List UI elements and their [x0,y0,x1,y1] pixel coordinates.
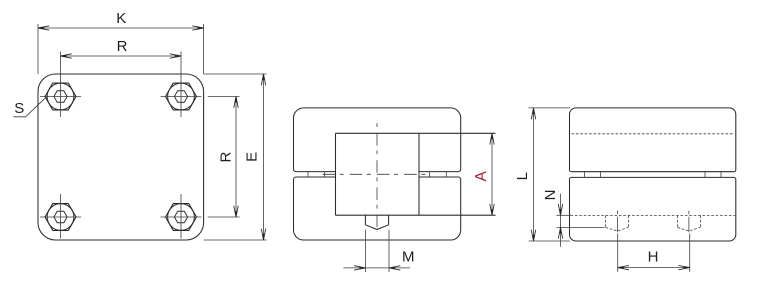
dim R top [61,38,182,58]
svg-text:M: M [402,248,415,265]
svg-text:E: E [244,152,261,162]
horizontal centerline [323,173,428,175]
vertical centerline [376,123,378,232]
side gap tick 3 [704,172,706,178]
center block [336,133,496,215]
svg-text:L: L [514,172,531,180]
label S with leader [13,97,46,117]
svg-text:N: N [542,190,559,201]
plate body [38,74,204,240]
hole bottom-right [161,194,202,239]
dim K [38,10,204,74]
dim A [473,133,494,215]
svg-text:K: K [116,10,126,27]
mid top block [294,108,461,172]
hole top-right [161,52,202,118]
dim L [514,108,570,241]
screw tip front [365,215,388,229]
gap tick left1 [307,172,309,177]
dim H [618,234,690,272]
side bottom block [570,177,736,241]
side gap tick 4 [720,172,722,178]
dim E [204,74,267,240]
hidden bore line bottom block [571,215,736,217]
svg-text:S: S [14,100,24,117]
mid bottom block [294,177,461,240]
hidden screw right [678,211,701,233]
svg-text:R: R [217,152,234,163]
gap tick right1 [429,172,431,177]
svg-text:H: H [648,248,659,265]
gap tick right2 [445,172,447,177]
side gap tick 1 [584,172,586,178]
dim N [542,190,605,247]
svg-text:A: A [473,170,490,181]
gap tick left2 [324,172,326,177]
hole top-left [40,52,81,118]
side top block [570,108,736,172]
side gap tick 2 [600,172,602,178]
hidden screw left [606,211,629,233]
svg-text:R: R [117,38,128,55]
hidden split line top block [572,133,735,135]
hole bottom-left [40,194,81,239]
dim M [343,230,414,272]
dim R right [208,97,240,218]
